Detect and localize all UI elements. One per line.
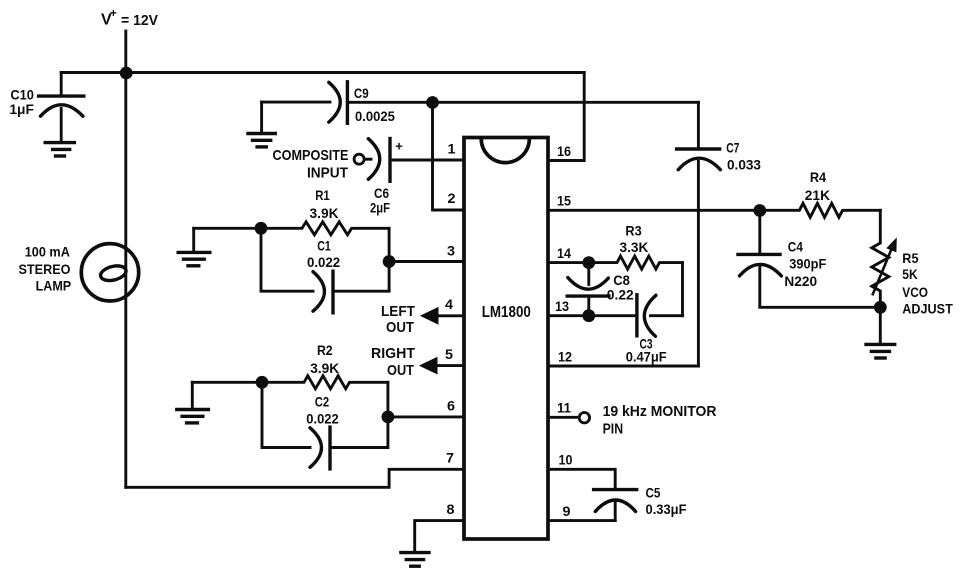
- wire R1/C1 left riser: [261, 228, 313, 291]
- capacitor C8 0.22: [567, 263, 634, 316]
- wire junction to ground: [879, 307, 882, 343]
- svg-text:5: 5: [445, 346, 453, 362]
- wire C9 to C7 branch: [349, 101, 698, 104]
- svg-text:1: 1: [448, 141, 456, 157]
- label composite input: [273, 147, 349, 181]
- ground for R2: [177, 382, 209, 423]
- svg-text:R5: R5: [902, 250, 918, 266]
- svg-text:C4: C4: [788, 239, 803, 255]
- arrow left out (pin 4): [381, 303, 464, 336]
- resistor R3 3.3K: [589, 223, 683, 270]
- svg-text:12: 12: [558, 348, 572, 364]
- resistor R2 3.9K: [262, 342, 388, 389]
- wire ground to R2 node: [192, 381, 262, 384]
- wire top supply bus: [61, 71, 584, 74]
- node R5/C4 bottom junction: [874, 301, 887, 314]
- svg-text:STEREO: STEREO: [19, 261, 71, 277]
- capacitor C3 0.47uF: [626, 295, 683, 365]
- svg-text:C5: C5: [646, 484, 661, 500]
- svg-text:C7: C7: [726, 139, 739, 155]
- svg-text:OUT: OUT: [387, 362, 414, 379]
- wire pin 15 to R4 branch: [548, 209, 760, 212]
- svg-text:ADJUST: ADJUST: [902, 300, 953, 316]
- wire junction down to pin 2: [433, 103, 465, 211]
- ground below pin 8: [401, 553, 429, 567]
- svg-text:0.0025: 0.0025: [355, 108, 395, 124]
- svg-text:0.22: 0.22: [607, 286, 634, 302]
- svg-text:9: 9: [563, 503, 571, 519]
- wire pin 7 to bottom bus to lamp line: [126, 469, 464, 487]
- ground for C9: [248, 102, 275, 147]
- wire main vertical (supply through lamp to bottom bus): [124, 73, 127, 487]
- svg-text:C2: C2: [315, 394, 330, 410]
- resistor R5 5K VCO adjust (variable): [872, 210, 953, 316]
- svg-text:0.33μF: 0.33μF: [646, 501, 687, 517]
- wire input terminal to C6: [365, 158, 372, 161]
- svg-text:15: 15: [557, 192, 571, 208]
- node pin 6 junction: [382, 411, 395, 424]
- svg-text:R3: R3: [625, 223, 641, 239]
- svg-text:19 kHz MONITOR: 19 kHz MONITOR: [603, 403, 717, 420]
- svg-text:C9: C9: [354, 85, 369, 101]
- svg-text:16: 16: [557, 143, 571, 159]
- svg-text:R4: R4: [810, 169, 826, 185]
- resistor R4 21K: [760, 169, 881, 217]
- node R1 left junction: [255, 222, 268, 235]
- wire R3 right riser to pin 13 line: [681, 263, 684, 316]
- wire C2 to right riser: [332, 382, 388, 447]
- node R4/C4 junction: [753, 204, 766, 217]
- svg-text:OUT: OUT: [386, 319, 414, 336]
- svg-text:3.3K: 3.3K: [620, 239, 649, 255]
- svg-text:8: 8: [447, 501, 455, 517]
- wire pin 10 to C5: [548, 469, 615, 488]
- wire C6 to pin 1: [392, 159, 465, 162]
- wire pin 8 to ground: [415, 521, 464, 551]
- svg-text:0.033: 0.033: [727, 157, 761, 173]
- svg-text:= 12V: = 12V: [121, 12, 158, 29]
- svg-text:+: +: [110, 8, 117, 20]
- wire V+ riser: [124, 31, 127, 73]
- svg-text:7: 7: [446, 450, 454, 466]
- svg-text:LM1800: LM1800: [482, 304, 531, 321]
- wire pin 9 to C5: [548, 519, 615, 522]
- svg-text:390pF: 390pF: [789, 256, 826, 272]
- svg-text:3.9K: 3.9K: [310, 360, 339, 376]
- svg-text:COMPOSITE: COMPOSITE: [273, 147, 349, 164]
- ground below R5: [866, 344, 895, 358]
- wire pin 14 to R3: [548, 261, 589, 264]
- svg-text:RIGHT: RIGHT: [371, 345, 415, 362]
- node 19 kHz monitor pin terminal: [579, 413, 589, 423]
- svg-text:C10: C10: [10, 86, 34, 102]
- wire ground to C9: [262, 101, 330, 104]
- arrow right out (pin 5): [371, 345, 464, 379]
- ground for R1: [178, 228, 210, 265]
- svg-text:LAMP: LAMP: [36, 277, 72, 293]
- wire ground to R1 node: [194, 227, 261, 230]
- wire junction to pin 6: [388, 415, 464, 418]
- svg-text:0.47μF: 0.47μF: [626, 349, 667, 365]
- svg-text:N220: N220: [784, 273, 817, 289]
- svg-text:PIN: PIN: [603, 420, 624, 437]
- capacitor C7 0.033: [677, 102, 762, 366]
- svg-text:21K: 21K: [805, 187, 830, 203]
- svg-text:13: 13: [555, 298, 569, 314]
- wire junction to pin 3: [389, 260, 464, 263]
- node supply junction: [120, 67, 133, 80]
- net V+ supply label: [101, 8, 158, 29]
- node C9 output junction: [426, 96, 439, 109]
- node pin 14 junction: [582, 256, 595, 269]
- capacitor C5 0.33uF: [594, 484, 687, 520]
- lamp DS1 100 mA stereo lamp: [19, 244, 139, 301]
- wire pin 16 riser to supply bus: [548, 73, 584, 161]
- svg-text:INPUT: INPUT: [307, 164, 348, 181]
- svg-text:R2: R2: [317, 342, 333, 358]
- node composite input terminal: [354, 154, 364, 164]
- capacitor C6 2uF: [368, 139, 403, 216]
- svg-text:3: 3: [447, 243, 455, 259]
- svg-text:14: 14: [557, 245, 571, 261]
- capacitor C4 390pF N220: [738, 211, 880, 308]
- svg-text:6: 6: [447, 398, 455, 414]
- wire R2/C2 left riser: [262, 382, 310, 447]
- svg-text:2μF: 2μF: [370, 200, 390, 216]
- svg-text:3.9K: 3.9K: [310, 205, 339, 221]
- svg-text:11: 11: [557, 400, 571, 416]
- svg-text:1μF: 1μF: [9, 101, 34, 117]
- node pin 13 junction: [582, 309, 595, 322]
- svg-text:+: +: [395, 139, 403, 154]
- label 19 kHz monitor pin: [603, 403, 717, 437]
- node R2 left junction: [256, 376, 269, 389]
- node pin 3 junction: [383, 255, 396, 268]
- capacitor C1 0.022: [307, 237, 340, 312]
- svg-text:10: 10: [559, 452, 573, 468]
- svg-text:C1: C1: [317, 237, 331, 253]
- svg-text:VCO: VCO: [902, 284, 928, 300]
- svg-text:5K: 5K: [902, 266, 917, 282]
- capacitor C2 0.022: [306, 394, 339, 469]
- capacitor C9 0.0025: [329, 82, 395, 124]
- svg-text:0.022: 0.022: [307, 254, 340, 270]
- wire pin 13 to C3: [548, 314, 637, 317]
- svg-text:0.022: 0.022: [306, 411, 339, 427]
- svg-text:4: 4: [445, 296, 453, 312]
- resistor R1 3.9K: [261, 187, 389, 235]
- svg-text:R1: R1: [315, 187, 330, 203]
- wire C1 to right riser: [335, 228, 390, 291]
- op-amp U1 LM1800 IC body: [464, 138, 548, 540]
- ground below C10: [45, 143, 74, 156]
- wire pin 12 to C7 branch: [548, 365, 698, 368]
- svg-text:2: 2: [448, 190, 456, 206]
- capacitor C10 1uF: [9, 73, 83, 142]
- svg-text:LEFT: LEFT: [381, 303, 415, 320]
- svg-text:100 mA: 100 mA: [25, 244, 70, 260]
- wire pin 11 to monitor terminal: [548, 416, 579, 419]
